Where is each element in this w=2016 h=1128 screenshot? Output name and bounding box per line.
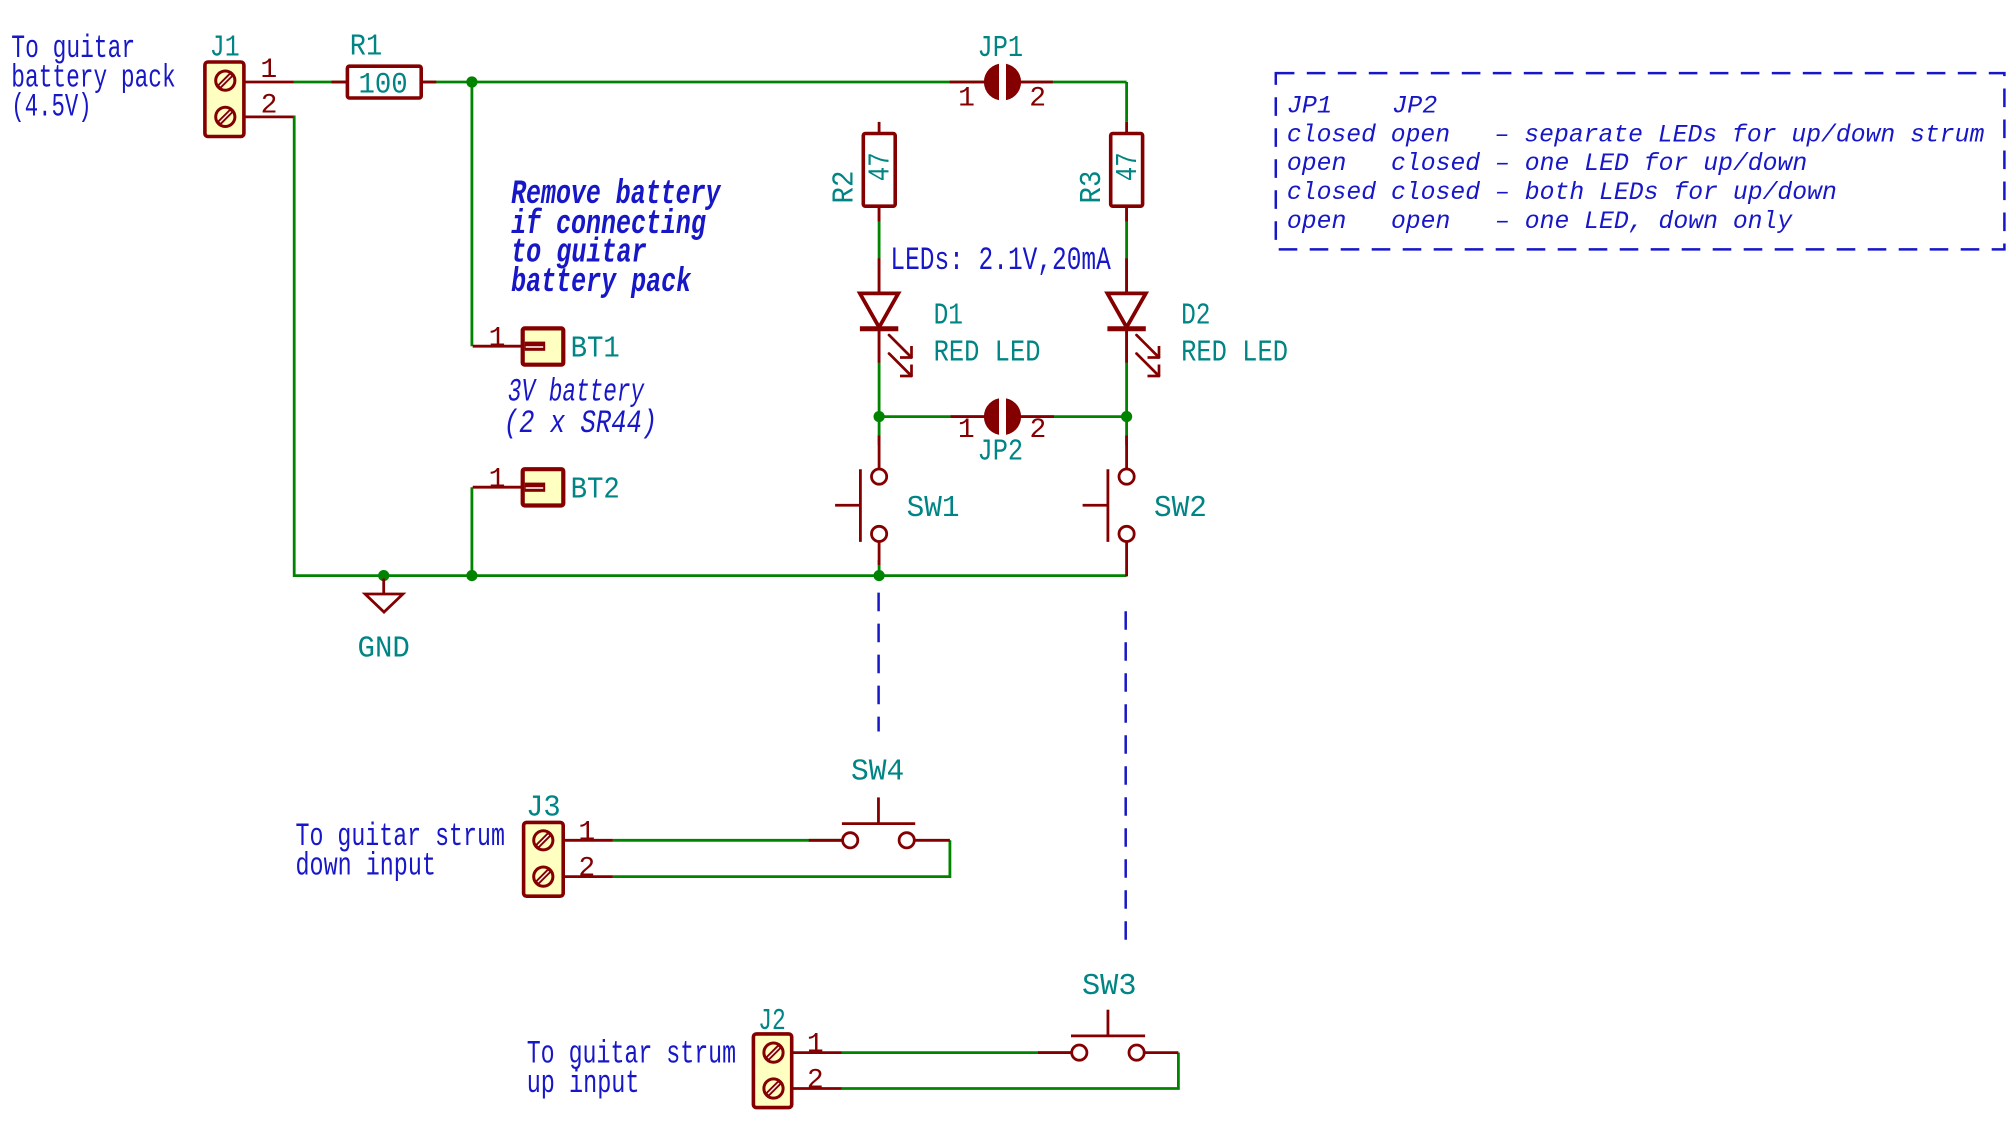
svg-text:100: 100 xyxy=(359,69,408,103)
battery BT2 xyxy=(523,469,564,505)
wire junction to SW2 top xyxy=(1125,417,1128,445)
svg-text:J3: J3 xyxy=(526,791,561,826)
pin stub SW1 top xyxy=(878,436,881,470)
svg-text:2: 2 xyxy=(261,91,278,122)
connector J2 xyxy=(753,1034,791,1108)
LED D2 xyxy=(1107,293,1159,376)
junction 3 xyxy=(1121,411,1132,422)
wire BT2 to bottom rail xyxy=(470,487,473,575)
pin stub R1 right xyxy=(421,81,436,84)
svg-text:RED LED: RED LED xyxy=(934,336,1041,371)
pin number JP1 pin 1 xyxy=(958,83,975,114)
wire D1 to JP2 junction xyxy=(878,329,881,417)
push button SW2 xyxy=(1083,469,1135,542)
pin number JP1 pin 2 xyxy=(1029,83,1046,114)
battery BT1 xyxy=(523,328,564,364)
svg-text:SW4: SW4 xyxy=(851,754,904,789)
push button SW1 xyxy=(835,469,887,542)
pin stub SW3 right xyxy=(1144,1051,1178,1054)
pin stub J1 pin1 xyxy=(244,81,294,84)
label J3 xyxy=(526,791,561,826)
pin stub SW4 left xyxy=(809,839,843,842)
pin stub SW3 left xyxy=(1038,1051,1072,1054)
svg-text:1: 1 xyxy=(958,415,975,446)
value 47 R3 xyxy=(1111,152,1146,181)
svg-text:2: 2 xyxy=(807,1066,824,1097)
pin number J2 pin 2 xyxy=(807,1066,824,1097)
connector J3 xyxy=(524,822,564,896)
push button SW4 xyxy=(842,797,915,848)
label R1 xyxy=(350,30,382,65)
svg-text:D1: D1 xyxy=(934,299,963,334)
label SW1 xyxy=(907,491,960,526)
svg-text:JP2: JP2 xyxy=(978,435,1024,470)
dashed note box xyxy=(1276,73,2005,249)
pin stub BT2 xyxy=(473,486,523,489)
label D2 xyxy=(1181,299,1210,334)
svg-text:closed closed – both LEDs for: closed closed – both LEDs for up/down xyxy=(1287,178,1837,207)
pin stub SW2 bottom xyxy=(1125,541,1128,576)
svg-text:BT2: BT2 xyxy=(571,473,620,508)
svg-text:2: 2 xyxy=(1029,83,1046,114)
note strum up xyxy=(527,1035,736,1101)
svg-text:down input: down input xyxy=(296,847,436,884)
note strum down xyxy=(296,818,505,884)
value 100 xyxy=(359,69,408,103)
label SW2 xyxy=(1154,491,1207,526)
svg-text:closed open – separate LEDs: closed open – separate LEDs for up/down … xyxy=(1287,120,1984,149)
pin stub SW2 top xyxy=(1125,436,1128,470)
wire junction to SW1 top xyxy=(878,417,881,445)
pin number J3 pin 1 xyxy=(578,818,595,849)
pin stub JP1 pin2 xyxy=(1016,81,1053,84)
pin stub J1 pin2 xyxy=(244,116,294,119)
svg-text:SW1: SW1 xyxy=(907,491,960,526)
LED D1 xyxy=(860,293,912,376)
pin stub R3 top xyxy=(1125,122,1128,134)
label JP2 xyxy=(978,435,1024,470)
pin stub BT1 xyxy=(473,345,523,348)
wire D2 to JP2 junction right xyxy=(1125,329,1128,417)
dashed link SW1 to SW4 xyxy=(877,593,880,732)
wire SW4 return loop xyxy=(613,840,950,876)
wire J2 pin1 to SW3 xyxy=(842,1051,1073,1054)
pin stub SW1 bottom xyxy=(878,541,881,565)
wire R2 to D1 xyxy=(878,206,881,293)
svg-text:47: 47 xyxy=(864,152,899,181)
jumper JP2 xyxy=(984,397,1021,436)
pin number JP2 pin 2 xyxy=(1029,415,1046,446)
svg-text:SW2: SW2 xyxy=(1154,491,1207,526)
svg-text:open open – one LED, down: open open – one LED, down only xyxy=(1287,207,1793,236)
pin stub J3 pin1 xyxy=(563,839,613,842)
pin number J1 pin 1 xyxy=(260,55,277,86)
pin stub R1 left xyxy=(332,81,348,84)
value 47 R2 xyxy=(864,152,899,181)
svg-text:GND: GND xyxy=(358,631,410,666)
svg-text:47: 47 xyxy=(1111,152,1146,181)
pin stub D2 anode xyxy=(1125,258,1128,293)
pin stub J2 pin2 xyxy=(792,1087,842,1090)
svg-text:D2: D2 xyxy=(1181,299,1210,334)
wire SW3 return loop xyxy=(842,1053,1179,1089)
svg-text:1: 1 xyxy=(578,818,595,849)
svg-text:1: 1 xyxy=(807,1030,824,1061)
connector J1 xyxy=(205,62,244,137)
svg-text:SW3: SW3 xyxy=(1082,969,1137,1004)
value RED LED D2 xyxy=(1181,336,1288,371)
svg-text:2: 2 xyxy=(578,854,595,885)
label BT2 xyxy=(571,473,620,508)
label SW4 xyxy=(851,754,904,789)
junction 2 xyxy=(874,411,885,422)
junction 6 xyxy=(874,570,885,581)
svg-text:battery pack: battery pack xyxy=(511,264,691,302)
note LEDs rating xyxy=(890,242,1111,279)
resistor R3 xyxy=(1111,134,1143,207)
wire right corner down to R3 xyxy=(1125,82,1128,122)
dashed link SW2 to SW3 xyxy=(1124,611,1127,940)
svg-text:(4.5V): (4.5V) xyxy=(11,89,91,126)
svg-text:BT1: BT1 xyxy=(571,332,620,367)
pin stub JP2 pin1 xyxy=(951,415,989,418)
pin stub D2 cathode xyxy=(1125,329,1128,363)
pin stub JP2 pin2 xyxy=(1016,415,1054,418)
pin stub J2 pin1 xyxy=(792,1051,842,1054)
label R3 xyxy=(1075,171,1110,204)
svg-text:(2 x SR44): (2 x SR44) xyxy=(504,405,657,442)
wire SW1 bottom to rail xyxy=(878,560,881,576)
jumper JP1 xyxy=(984,63,1021,102)
svg-text:R2: R2 xyxy=(828,171,863,204)
pin stub J3 pin2 xyxy=(563,875,613,878)
svg-text:JP1 JP2: JP1 JP2 xyxy=(1287,92,1437,121)
svg-text:1: 1 xyxy=(958,83,975,114)
pin number J2 pin 1 xyxy=(807,1030,824,1061)
pin stub JP1 pin1 xyxy=(950,81,989,84)
push button SW3 xyxy=(1071,1010,1145,1060)
pin stub R2 top xyxy=(878,122,881,134)
pin stub D1 cathode xyxy=(878,329,881,363)
junction 1 xyxy=(466,76,477,87)
ground symbol xyxy=(365,579,403,613)
note jumper configuration table xyxy=(1287,92,1984,236)
wire R3 to D2 xyxy=(1125,206,1128,293)
svg-text:R1: R1 xyxy=(350,30,382,65)
resistor R2 xyxy=(863,134,895,207)
svg-text:LEDs: 2.1V,20mA: LEDs: 2.1V,20mA xyxy=(890,242,1111,279)
pin number BT2 pin 1 xyxy=(489,464,506,495)
svg-text:J1: J1 xyxy=(210,30,240,65)
label R2 xyxy=(828,171,863,204)
value RED LED D1 xyxy=(934,336,1041,371)
svg-text:RED LED: RED LED xyxy=(1181,336,1288,371)
wire top rail from J1 pin1 through R1 and JP1 to right corner xyxy=(294,81,1127,84)
wire J1 pin2 down left rail xyxy=(294,117,1127,576)
svg-text:1: 1 xyxy=(489,323,506,354)
note to guitar battery pack xyxy=(11,30,175,125)
svg-text:up input: up input xyxy=(527,1065,640,1102)
pin stub SW4 right xyxy=(914,839,950,842)
pin number BT1 pin 1 xyxy=(489,323,506,354)
pin number J1 pin 2 xyxy=(261,91,278,122)
note remove battery xyxy=(511,176,722,302)
svg-text:open closed – one LED for up: open closed – one LED for up/down xyxy=(1287,149,1807,178)
label J1 xyxy=(210,30,240,65)
wire J3 pin1 to SW4 xyxy=(613,839,843,842)
label JP1 xyxy=(978,31,1024,66)
pin stub R2 bottom xyxy=(878,206,881,221)
label J2 xyxy=(758,1004,786,1039)
label BT1 xyxy=(571,332,620,367)
label SW3 xyxy=(1082,969,1137,1004)
label D1 xyxy=(934,299,963,334)
svg-text:2: 2 xyxy=(1029,415,1046,446)
svg-text:1: 1 xyxy=(489,464,506,495)
label GND xyxy=(358,631,410,666)
pin stub D1 anode xyxy=(878,258,881,293)
junction 4 xyxy=(378,570,389,581)
pin stub R3 bottom xyxy=(1125,206,1128,221)
wire JP2 row xyxy=(879,415,1127,418)
pin number J3 pin 2 xyxy=(578,854,595,885)
resistor R1 xyxy=(347,66,421,98)
junction 5 xyxy=(466,570,477,581)
pin number JP2 pin 1 xyxy=(958,415,975,446)
note 3V battery xyxy=(504,374,657,442)
svg-text:J2: J2 xyxy=(758,1004,786,1039)
svg-text:JP1: JP1 xyxy=(978,31,1024,66)
wire junction to BT1 vertical xyxy=(470,82,473,346)
svg-text:1: 1 xyxy=(260,55,277,86)
svg-text:R3: R3 xyxy=(1075,171,1110,204)
